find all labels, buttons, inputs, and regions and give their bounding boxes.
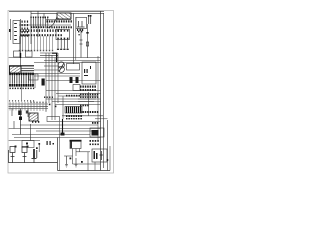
wire top bus 2 [31,12,104,14]
switch S1 [10,147,15,163]
wire v12 [11,109,13,117]
right-mid dashes [90,122,99,145]
box LB2 [22,141,34,148]
node J2 [107,159,109,161]
wire v107 [107,120,109,171]
wire v20 [20,19,22,68]
connector comb big [19,36,53,51]
CN1 body top dots [57,30,68,32]
wire v63 thin [62,96,64,119]
wire drop C [43,13,45,18]
pin dot band upper [47,20,72,22]
wire bottom bus left [9,150,58,163]
box U5 [76,17,87,28]
page frame [8,11,114,174]
wire v35 [34,74,36,88]
wire v30b [30,124,32,141]
wire stair5 [55,104,101,106]
T1 pin wires [73,149,80,165]
tab box 2 [26,51,33,57]
connector CN3 hatched [29,113,38,121]
wire h156 [64,155,73,157]
ribbon block J1 [65,107,82,114]
motor M1 slash [59,63,64,72]
junction dots mid [49,104,57,108]
fuse F2 top mark [86,32,88,34]
connector CN2 pin comb [9,73,34,87]
wire stair2 [58,95,98,97]
dash marks lb [32,121,39,123]
box U8 marks [94,151,98,159]
node dot T1b [81,161,83,163]
box corner heavy [52,53,57,62]
wire h118 [95,118,108,120]
CN1 lower pins [58,40,68,49]
sub-bus dot row [31,26,44,28]
label dash row mid [9,100,34,101]
wire h76 [34,75,80,77]
box U6 [90,128,104,137]
ground G2 [75,158,78,167]
wire right bus 3 [97,56,99,140]
box U4 [82,62,96,84]
fuse F1 [89,16,91,24]
wire v20 dark segment [20,53,22,58]
wire h90 [46,90,101,92]
wire v39 stub [38,144,40,152]
relay K2 blob [18,111,21,116]
capacitor C1 [32,149,37,163]
connector CN2 hatched body [10,66,22,73]
dash marks x44 [44,97,53,98]
pin dot band lower [47,26,72,28]
wire stair4 [52,101,94,103]
box LB3 [47,117,60,122]
box U8 [92,149,107,162]
wire v57b [57,138,59,171]
terminal dot row 3 [20,34,62,36]
transistor Q1 [100,151,104,160]
wire v95 [94,162,96,171]
wire left stub [10,19,12,40]
wire v21 lower [21,86,23,100]
wire v14b [13,121,15,129]
transformer T1 [70,140,82,149]
relay K1 body [13,21,20,44]
wire L5 [12,134,90,136]
wire stair3 [46,98,96,100]
connector CN2 top bar [9,65,34,67]
wire pin header line [46,19,71,21]
wire bus y25 [19,24,71,26]
box U2 [67,64,80,71]
wire rc1 [78,98,101,100]
wire h152 [76,151,90,153]
box S3 [29,74,38,80]
motor M1 [58,62,64,73]
wire v86 [87,24,89,58]
diode D1 [70,77,73,83]
CN1 body bottom dots [57,38,68,40]
mid tick comb [10,102,28,111]
wire mid bus a [9,103,48,105]
relay K1 labels [9,23,17,40]
wire v62 foot [61,133,65,136]
box U5 base marks [77,29,83,31]
wire drop B [37,11,39,37]
terminal dash row 2 [20,29,62,32]
dash row above ribbon [66,95,80,97]
wire bottom bus right [58,170,111,172]
wire v49 [48,53,50,103]
transistor Q2 [42,79,45,86]
connector CN1 hatched top [57,13,71,19]
wire top bus 1 [9,10,104,12]
wire mid bus b [9,105,48,107]
wire L1 [60,121,101,123]
node dot T1a [70,158,72,160]
wire L2 [20,124,98,126]
wire h73 [34,73,80,75]
wire right bus 1 [100,11,102,171]
wire h140 [9,140,40,142]
CN2 lower dash row [10,88,35,90]
wire v88m [88,92,90,116]
wire v76 [75,17,77,60]
connector CN1 body [56,30,70,40]
wire v74 [73,13,75,64]
wire h62 [34,62,101,64]
connector CN2 band [21,68,34,73]
capacitor C2 thin [36,150,38,158]
wire h70 [34,69,58,71]
wire v88 [87,152,89,171]
terminal grid TB1 [22,21,29,37]
wire L3 [9,128,101,130]
box U5 posts [77,21,85,27]
wire v52 [51,55,53,120]
marks IV [47,141,55,145]
ground G1 [65,156,68,167]
ribbon J1 dashes [66,115,82,119]
switch S2 flag [27,146,29,148]
wire v46 [45,53,47,112]
terminal comb row 1 [30,17,48,29]
wire y60 [44,60,101,62]
wire h80 [46,80,101,82]
wire divider y57 [9,57,101,59]
right cluster upper dashes [80,86,96,92]
wire mid bus c [9,108,48,110]
wire v110 [109,146,111,171]
wire v59 [59,122,61,171]
node dots near R1 [78,31,82,36]
wire drop A [30,11,32,44]
wire L6 [14,137,101,139]
resistor R1 [80,29,83,58]
switch S1 flag [15,146,17,148]
C2 top dot [36,147,38,149]
switch S2 [22,147,27,163]
wire h66 [44,65,58,67]
tab box 1 [14,51,21,57]
node blob v20b [19,117,22,121]
fuse F2 [86,42,88,46]
node dot v39 [38,143,40,145]
wire v20b [20,109,22,135]
box U3 [73,85,80,91]
node dot LB2 [26,143,28,145]
wire stair1 [56,93,101,95]
wire v55 [54,58,56,121]
wire arc lead [48,17,57,29]
wire right bus 2 [102,13,104,168]
wire L4 [36,130,96,132]
mid comb small [30,102,46,111]
wire rc3 [62,115,103,117]
diode D2 [76,77,79,83]
wire h164 [73,163,101,165]
wire h55 [40,54,58,56]
wire v62 dark [62,119,64,134]
wire v58 [57,53,59,103]
wire v28 [27,109,29,118]
box U4 marks [84,66,91,76]
right cluster dashes [80,94,98,114]
CN1 pin feet [57,49,69,50]
wire rc2 [78,101,101,103]
box U6 fill [92,130,99,136]
wire h53 [40,52,58,54]
